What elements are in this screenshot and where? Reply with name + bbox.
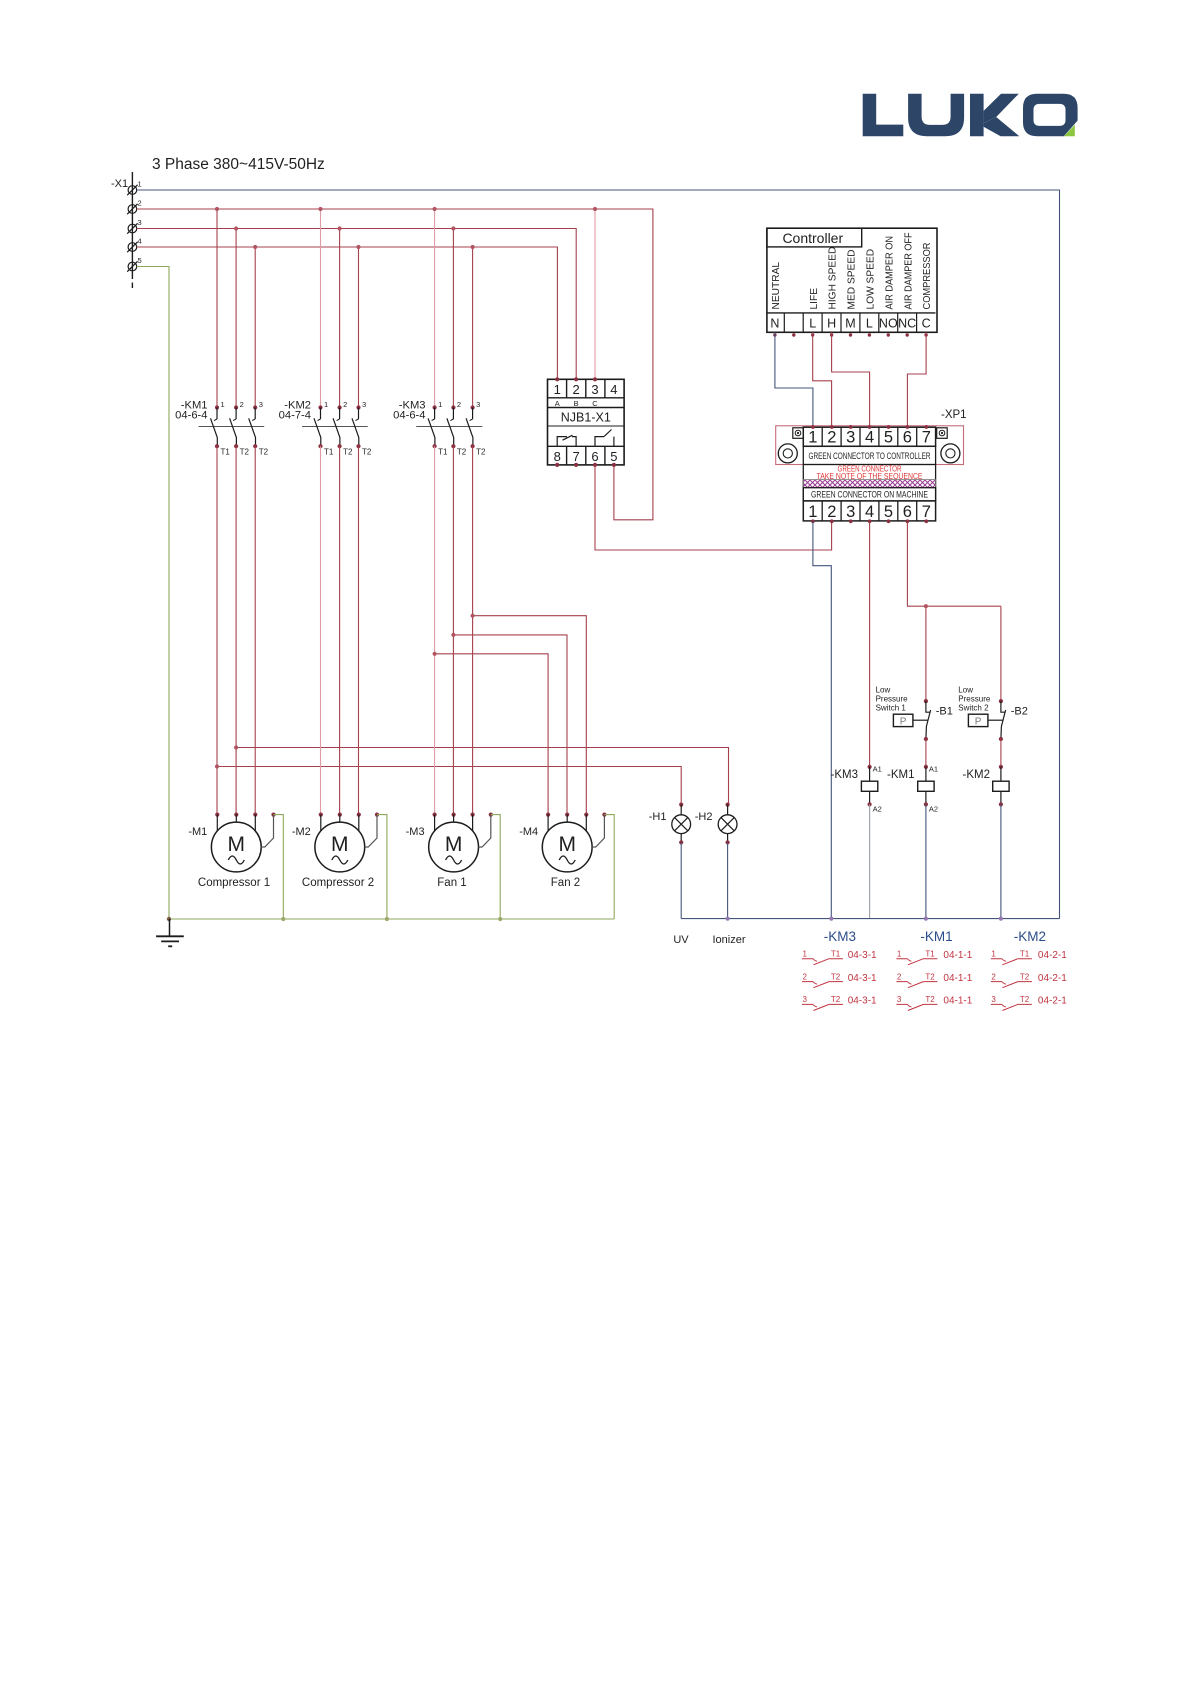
svg-text:LOW SPEED: LOW SPEED <box>866 249 877 310</box>
svg-text:M: M <box>228 833 246 856</box>
wire L1 neutral (blue) top bus + right drop <box>137 190 1060 919</box>
svg-text:Fan 1: Fan 1 <box>437 877 466 889</box>
svg-text:Low: Low <box>958 686 973 695</box>
motor M1 Compressor 1 <box>188 813 283 920</box>
svg-text:COMPRESSOR: COMPRESSOR <box>922 243 933 310</box>
svg-text:Switch 2: Switch 2 <box>958 704 989 713</box>
svg-text:T2: T2 <box>343 448 353 457</box>
KM1 pole 1 <box>211 400 231 457</box>
svg-text:3: 3 <box>138 218 142 227</box>
motor M4 Fan 2 <box>519 813 614 920</box>
wire KM3 T1 -> M3 and M4 <box>434 446 436 814</box>
wire controller L -> XP1 pin2 <box>813 332 832 426</box>
svg-text:NC: NC <box>898 317 916 331</box>
svg-text:3: 3 <box>846 429 855 447</box>
XP1 pin dots <box>811 425 928 523</box>
KM3 pole 1 <box>428 400 448 457</box>
svg-text:-KM1: -KM1 <box>887 769 914 781</box>
svg-text:A2: A2 <box>873 805 882 814</box>
svg-text:7: 7 <box>572 449 579 464</box>
wire KM2 T2b -> M2 <box>358 446 360 814</box>
svg-text:P: P <box>900 716 907 727</box>
KM3 pole 3 <box>466 400 486 457</box>
svg-text:04-2-1: 04-2-1 <box>1038 973 1067 984</box>
XP1 bottom pin row 1-7 <box>803 501 935 521</box>
terminal X1:2 <box>127 199 141 215</box>
wire XP1 machine pin6 -> B1/B2 branch <box>907 521 1001 701</box>
KM2 pole 1 <box>314 400 334 457</box>
svg-text:T2: T2 <box>240 448 250 457</box>
earth bus (green) <box>169 918 614 920</box>
svg-text:MED SPEED: MED SPEED <box>847 249 858 309</box>
wire L3 -> KM2 pole2 <box>339 229 341 408</box>
svg-text:8: 8 <box>554 449 561 464</box>
controller vertical pin labels <box>771 233 933 310</box>
svg-text:-KM2: -KM2 <box>1014 929 1046 944</box>
svg-text:6: 6 <box>591 449 598 464</box>
svg-text:04-6-4: 04-6-4 <box>393 410 425 422</box>
svg-text:1: 1 <box>138 180 142 189</box>
svg-text:-H2: -H2 <box>695 811 713 823</box>
svg-text:M: M <box>845 317 855 331</box>
wire L4 -> KM3 pole3 <box>472 247 474 408</box>
wire L2 -> KM2 pole1 (light red) <box>320 209 322 408</box>
svg-text:3: 3 <box>803 995 808 1004</box>
svg-text:5: 5 <box>884 503 893 521</box>
svg-text:04-1-1: 04-1-1 <box>943 996 972 1007</box>
svg-text:-KM2: -KM2 <box>963 769 990 781</box>
svg-text:1: 1 <box>221 400 225 409</box>
svg-text:-KM1: -KM1 <box>920 929 952 944</box>
svg-text:1: 1 <box>808 429 817 447</box>
wire XP1 machine pin1 -> neutral bus (blue) <box>813 521 831 918</box>
wire L2 -> NJB1 pin3 (light red) <box>594 209 596 379</box>
wire L4 -> KM2 pole3 <box>358 247 360 408</box>
svg-text:2: 2 <box>803 972 808 981</box>
svg-text:T2: T2 <box>925 995 935 1004</box>
svg-text:T2: T2 <box>831 995 841 1004</box>
svg-text:P: P <box>975 716 982 727</box>
wire L2 -> KM1 pole1 <box>216 209 218 408</box>
NJB1 pin dots <box>555 377 616 467</box>
svg-text:04-3-1: 04-3-1 <box>848 996 877 1007</box>
terminal block -X1 <box>111 172 132 288</box>
LUKO logo <box>863 94 1078 137</box>
svg-text:2: 2 <box>138 199 142 208</box>
contactor KM3 contacts <box>393 400 482 427</box>
ground symbol <box>156 919 184 946</box>
svg-text:2: 2 <box>827 429 836 447</box>
contact cross-reference table KM2 <box>1014 929 1046 944</box>
svg-text:T2: T2 <box>476 448 486 457</box>
wire L2 -> KM3 pole1 <box>434 209 436 408</box>
svg-text:HIGH SPEED: HIGH SPEED <box>828 247 839 310</box>
wire KM1 T2 -> M1 and H2 <box>236 446 728 814</box>
pressure switch B2 <box>958 686 1028 767</box>
svg-text:04-1-1: 04-1-1 <box>943 973 972 984</box>
svg-text:1: 1 <box>897 950 902 959</box>
svg-text:-KM3: -KM3 <box>824 929 856 944</box>
motor M3 Fan 1 <box>406 813 501 920</box>
svg-text:-B1: -B1 <box>936 706 953 718</box>
svg-text:-M2: -M2 <box>292 826 311 838</box>
controller block <box>767 228 937 332</box>
svg-text:5: 5 <box>884 429 893 447</box>
svg-text:T2: T2 <box>259 448 269 457</box>
XP1 top pin row 1-7 <box>803 427 935 446</box>
svg-text:LIFE: LIFE <box>809 288 820 310</box>
svg-text:AIR DAMPER ON: AIR DAMPER ON <box>884 236 895 310</box>
svg-text:A1: A1 <box>873 765 882 774</box>
contactor KM1 contacts <box>175 400 264 427</box>
wire KM1 T1 -> M1 and H1 <box>217 446 681 814</box>
svg-text:NEUTRAL: NEUTRAL <box>771 262 782 310</box>
svg-text:A1: A1 <box>929 765 938 774</box>
svg-text:Switch 1: Switch 1 <box>876 704 907 713</box>
terminal X1:3 <box>127 218 141 234</box>
svg-text:1: 1 <box>803 950 808 959</box>
svg-text:04-2-1: 04-2-1 <box>1038 996 1067 1007</box>
svg-text:T2: T2 <box>1020 972 1030 981</box>
KM3 pole 2 <box>447 400 467 457</box>
svg-text:T1: T1 <box>438 448 448 457</box>
svg-text:04-3-1: 04-3-1 <box>848 973 877 984</box>
svg-text:-M4: -M4 <box>519 826 538 838</box>
phase monitor NJB1-X1 <box>548 379 625 465</box>
svg-text:-B2: -B2 <box>1011 706 1028 718</box>
svg-text:3: 3 <box>362 400 366 409</box>
svg-text:Low: Low <box>876 686 891 695</box>
svg-text:-M1: -M1 <box>188 826 207 838</box>
XP1 red note text <box>817 464 923 481</box>
wire L2 phase bus (red) with end drop to NJB1 pin5 <box>137 209 653 520</box>
svg-text:-M3: -M3 <box>406 826 425 838</box>
svg-text:B: B <box>574 399 579 408</box>
pressure switch B1 <box>876 686 953 767</box>
svg-text:Pressure: Pressure <box>876 695 909 704</box>
svg-text:Pressure: Pressure <box>958 695 991 704</box>
svg-text:Fan 2: Fan 2 <box>551 877 580 889</box>
wire L3 -> KM3 pole2 <box>452 229 454 408</box>
svg-text:GREEN CONNECTOR ON MACHINE: GREEN CONNECTOR ON MACHINE <box>811 490 928 500</box>
svg-text:T2: T2 <box>925 972 935 981</box>
wire KM2 T1 -> M2 (light red) <box>320 446 322 814</box>
svg-text:M: M <box>331 833 349 856</box>
contact cross-reference table KM3 <box>824 929 856 944</box>
svg-text:2: 2 <box>991 972 996 981</box>
svg-text:GREEN CONNECTOR TO CONTROLLER: GREEN CONNECTOR TO CONTROLLER <box>809 451 931 461</box>
svg-text:4: 4 <box>138 237 142 246</box>
svg-text:7: 7 <box>922 503 931 521</box>
wire controller H -> XP1 pin4 <box>832 332 870 426</box>
svg-text:5: 5 <box>610 449 617 464</box>
svg-text:6: 6 <box>903 503 912 521</box>
svg-text:T2: T2 <box>831 972 841 981</box>
svg-text:N: N <box>770 317 779 331</box>
wire XP1 machine pin4 -> KM3 coil <box>869 521 871 767</box>
svg-text:T2: T2 <box>457 448 467 457</box>
svg-text:1: 1 <box>438 400 442 409</box>
coil KM3 <box>831 765 882 919</box>
NJB1 relay contact 6-5 (open) <box>595 430 614 447</box>
svg-text:C: C <box>922 317 931 331</box>
controller pin stub dots <box>773 333 928 336</box>
svg-text:3: 3 <box>259 400 263 409</box>
KM2 pole 2 <box>333 400 353 457</box>
svg-text:3: 3 <box>846 503 855 521</box>
KM1 pole 2 <box>230 400 250 457</box>
lamp H2 (Ionizer) <box>695 803 737 919</box>
svg-text:M: M <box>558 833 576 856</box>
svg-text:A2: A2 <box>929 805 938 814</box>
svg-text:1: 1 <box>808 503 817 521</box>
XP1 hatch band <box>803 465 935 501</box>
wire L3 -> KM1 pole2 <box>235 229 237 408</box>
svg-text:Compressor 2: Compressor 2 <box>302 877 374 889</box>
svg-text:04-2-1: 04-2-1 <box>1038 950 1067 961</box>
svg-text:04-1-1: 04-1-1 <box>943 950 972 961</box>
connector XP1 <box>776 409 967 465</box>
svg-text:M: M <box>445 833 463 856</box>
lamp H1 (UV) <box>649 803 691 919</box>
svg-text:AIR DAMPER OFF: AIR DAMPER OFF <box>903 233 914 310</box>
XP1 label strip to controller <box>803 446 935 464</box>
svg-text:L: L <box>809 317 816 331</box>
svg-text:H: H <box>827 317 836 331</box>
wire KM2 T2 -> M2 <box>339 446 341 814</box>
svg-text:-X1: -X1 <box>111 178 128 190</box>
terminal X1:4 <box>127 237 141 253</box>
svg-text:T1: T1 <box>831 950 841 959</box>
svg-text:04-7-4: 04-7-4 <box>279 410 311 422</box>
svg-text:04-3-1: 04-3-1 <box>848 950 877 961</box>
svg-text:NO: NO <box>879 317 898 331</box>
svg-text:4: 4 <box>865 429 874 447</box>
svg-text:04-6-4: 04-6-4 <box>175 410 207 422</box>
svg-text:Ionizer: Ionizer <box>712 934 745 946</box>
junction dots on bus lines <box>215 207 597 249</box>
svg-text:A: A <box>555 399 560 408</box>
svg-text:3 Phase 380~415V-50Hz: 3 Phase 380~415V-50Hz <box>152 156 325 173</box>
svg-text:-H1: -H1 <box>649 811 667 823</box>
svg-text:3: 3 <box>897 995 902 1004</box>
wire L4 -> KM1 pole3 <box>254 247 256 408</box>
svg-text:2: 2 <box>572 382 579 397</box>
svg-text:-XP1: -XP1 <box>941 409 967 421</box>
wire L3 phase bus (red) end drop to NJB1 pin2 <box>137 229 577 380</box>
KM1 pole 3 <box>249 400 269 457</box>
svg-text:4: 4 <box>865 503 874 521</box>
svg-text:2: 2 <box>827 503 836 521</box>
svg-text:1: 1 <box>554 382 561 397</box>
svg-text:2: 2 <box>343 400 347 409</box>
svg-text:2: 2 <box>457 400 461 409</box>
wire L4 phase bus (red) end drop to NJB1 pin1 <box>137 247 558 379</box>
svg-text:Controller: Controller <box>782 230 843 246</box>
wire KM3 T2 -> M3 and M4 <box>453 446 567 814</box>
terminal X1:5 <box>127 256 141 272</box>
svg-text:T1: T1 <box>324 448 334 457</box>
svg-text:5: 5 <box>138 256 142 265</box>
svg-text:3: 3 <box>991 995 996 1004</box>
svg-text:NJB1-X1: NJB1-X1 <box>561 411 611 425</box>
svg-text:2: 2 <box>240 400 244 409</box>
wire NJB1 pin6 -> XP1 machine pin2 <box>595 465 832 550</box>
svg-text:1: 1 <box>991 950 996 959</box>
contactor KM2 contacts <box>279 400 368 427</box>
svg-text:2: 2 <box>897 972 902 981</box>
svg-text:Compressor 1: Compressor 1 <box>198 877 270 889</box>
svg-text:3: 3 <box>591 382 598 397</box>
neutral bus bottom (blue) <box>681 918 1059 920</box>
terminal X1:1 <box>127 180 141 196</box>
wire KM1 T2b -> M1 <box>254 446 256 814</box>
svg-text:6: 6 <box>903 429 912 447</box>
svg-text:7: 7 <box>922 429 931 447</box>
svg-text:T2: T2 <box>1020 995 1030 1004</box>
svg-text:T1: T1 <box>925 950 935 959</box>
svg-text:-KM3: -KM3 <box>831 769 858 781</box>
svg-text:C: C <box>592 399 598 408</box>
coil KM1 <box>887 765 938 919</box>
NJB1 relay contact 8-7 (closed) <box>557 435 576 446</box>
wire KM3 T2b -> M3 and M4 <box>473 446 587 814</box>
svg-text:3: 3 <box>476 400 480 409</box>
svg-text:T2: T2 <box>362 448 372 457</box>
svg-text:T1: T1 <box>1020 950 1030 959</box>
XP1 label strip on machine <box>803 488 935 501</box>
wire controller C -> XP1 pin6 <box>907 332 926 426</box>
contact cross-reference table KM1 <box>920 929 952 944</box>
motor M2 Compressor 2 <box>292 813 387 920</box>
svg-text:L: L <box>866 317 873 331</box>
svg-text:T1: T1 <box>221 448 231 457</box>
svg-text:UV: UV <box>673 934 689 946</box>
wire PE green from X1:5 <box>137 267 169 920</box>
KM2 pole 3 <box>352 400 372 457</box>
coil KM2 <box>963 765 1010 919</box>
wire controller N -> XP1 pin1 (blue) <box>775 332 813 426</box>
svg-text:4: 4 <box>610 382 617 397</box>
svg-text:1: 1 <box>324 400 328 409</box>
